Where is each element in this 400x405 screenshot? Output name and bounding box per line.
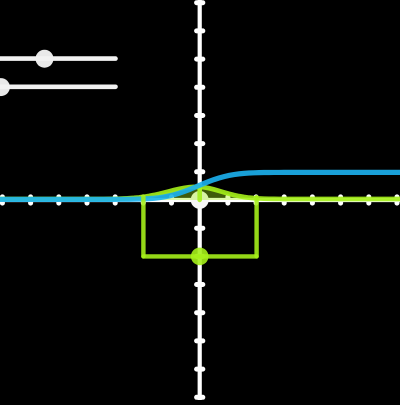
green area fill under pdf hump xyxy=(0,187,400,200)
slider 1 track xyxy=(0,56,116,61)
slider 1 knob xyxy=(36,50,54,68)
slider 2 track xyxy=(0,85,116,90)
green capsule segment at x=0 xyxy=(197,187,202,200)
slider 2 knob xyxy=(0,78,10,96)
y-axis xyxy=(198,0,202,400)
y-axis ticks xyxy=(197,3,203,398)
green dot at (0,-2) xyxy=(191,248,209,266)
x-axis xyxy=(0,198,400,202)
green square left edge xyxy=(141,197,145,256)
x-axis ticks xyxy=(2,197,397,203)
origin point xyxy=(191,191,209,209)
green square bottom edge xyxy=(143,254,256,258)
blue cdf curve xyxy=(0,172,400,199)
green square right edge xyxy=(254,197,258,256)
green pdf curve xyxy=(0,187,400,199)
